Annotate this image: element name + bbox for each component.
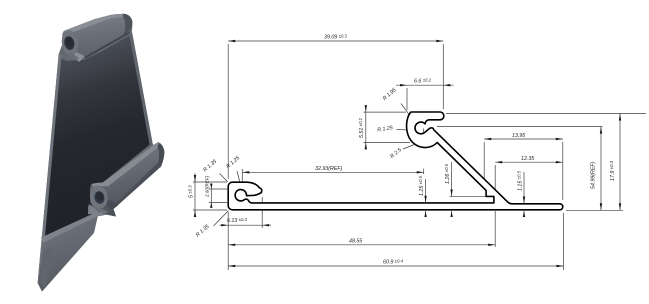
3D arm top-face highlight xyxy=(92,142,161,187)
ext line left hook bottom-left xyxy=(227,212,229,270)
3D bottom flange top band xyxy=(41,212,109,243)
arrowheads xyxy=(194,40,621,267)
3D arm curl tip xyxy=(97,208,108,214)
svg-text:1.15 ±0.5: 1.15 ±0.5 xyxy=(517,170,524,191)
svg-text:48.55: 48.55 xyxy=(349,239,362,245)
ext line slot level right long xyxy=(437,126,603,128)
dim line 6.13 xyxy=(220,224,272,226)
3D render: profile base silhouette xyxy=(38,14,165,292)
ext line bar right end upper xyxy=(562,142,564,200)
arrow 1.26 down xyxy=(450,189,452,196)
2D drawing xyxy=(193,41,646,270)
ext line hook bottom left xyxy=(364,141,411,143)
ext line left hook top xyxy=(193,181,227,183)
svg-text:60.9 ±0.4: 60.9 ±0.4 xyxy=(383,259,404,266)
ext line bar right end lower xyxy=(563,213,565,270)
svg-text:13.95: 13.95 xyxy=(512,133,525,139)
arrows 60.9 xyxy=(228,265,235,267)
ext line bar bottom right xyxy=(566,209,623,211)
dim texts xyxy=(188,34,617,266)
3D cap bottom edge shadow xyxy=(85,32,130,59)
dim line 2.60 xyxy=(210,184,212,208)
dim line 17.9 xyxy=(619,114,621,211)
arrows 12.35 xyxy=(495,161,502,163)
extrusion profile outline xyxy=(228,112,563,210)
dim line 5 xyxy=(194,173,196,215)
3D top cap top-face highlight xyxy=(64,14,125,35)
ext line 6.13 right xyxy=(261,197,263,228)
dim line 32.93 xyxy=(242,171,423,173)
ext line cap top right long xyxy=(446,113,646,115)
3D bottom arm bar xyxy=(90,142,164,217)
3D arm hook curl front face xyxy=(88,184,109,210)
dim line 5.51 xyxy=(365,107,367,148)
svg-text:R 1.25: R 1.25 xyxy=(377,125,393,133)
svg-text:32.93(REF): 32.93(REF) xyxy=(315,166,343,172)
ext line 48.55 right xyxy=(494,211,496,247)
arrows 6.6 outside xyxy=(400,84,407,86)
3D top cap curl tip xyxy=(68,53,80,61)
arrow 1.25 down xyxy=(424,196,426,203)
svg-text:R 1.95: R 1.95 xyxy=(382,87,398,102)
3D arm below-curl light gap xyxy=(88,204,100,214)
ext line 39.09 right cap right xyxy=(442,44,444,109)
ext line 32.93 right xyxy=(423,169,425,174)
svg-text:6.6 ±0.2: 6.6 ±0.2 xyxy=(414,78,432,85)
svg-text:39.09 ±0.3: 39.09 ±0.3 xyxy=(324,34,348,41)
3D arm mouth shadow xyxy=(106,200,118,211)
ext line 39.09 left / hook left xyxy=(227,44,229,179)
svg-text:5 ±0.3: 5 ±0.3 xyxy=(188,185,195,198)
svg-text:2.60(REF): 2.60(REF) xyxy=(205,175,210,198)
3D web left edge light strip xyxy=(38,54,62,285)
svg-text:R 1.25: R 1.25 xyxy=(225,155,241,170)
svg-text:17.9 ±0.3: 17.9 ±0.3 xyxy=(609,160,616,181)
3D cap mouth light gap xyxy=(72,52,85,62)
leader R1.35 upper-left xyxy=(220,174,228,182)
3D top cap bar xyxy=(62,14,132,59)
arrows 39.09 xyxy=(228,40,235,42)
arrows 48.55 xyxy=(228,244,235,246)
ext line 13.95 left xyxy=(483,142,485,187)
3D arm lower shade xyxy=(112,163,161,209)
3D arm end face xyxy=(158,143,165,167)
dim line 1.26 xyxy=(451,162,453,196)
cavity centerline tick top hook xyxy=(423,129,425,136)
3D top cap end face xyxy=(123,14,133,35)
dim line 1.25 xyxy=(425,179,427,203)
ext line left hook bottom xyxy=(193,209,227,211)
dim line 12.35 xyxy=(495,161,563,163)
ext line cap top left xyxy=(364,111,407,113)
leader R2.5 xyxy=(403,144,417,150)
leader R1.25 top xyxy=(397,129,415,132)
ext line ledge level xyxy=(450,196,487,198)
ext line 12.35 left xyxy=(494,165,496,202)
arrows 54.99 xyxy=(600,127,602,134)
arrows 2.60 outside xyxy=(210,184,212,190)
svg-text:6.13 ±0.3: 6.13 ±0.3 xyxy=(227,217,248,224)
3D top cap cavity hole xyxy=(63,35,76,51)
svg-text:R 1.35: R 1.35 xyxy=(202,159,218,174)
dim line 39.09 xyxy=(228,40,443,42)
ext line 6.6 left xyxy=(406,88,408,110)
svg-text:1.26 ±0.5: 1.26 ±0.5 xyxy=(444,163,451,184)
arrows 5 outside xyxy=(194,175,196,182)
dim line 6.6 xyxy=(396,84,454,86)
svg-text:5.51 ±0.2: 5.51 ±0.2 xyxy=(358,117,365,138)
dim line 60.9 xyxy=(228,265,563,267)
svg-text:1.25 ±0.5: 1.25 ±0.5 xyxy=(418,175,425,196)
dim line 54.99 xyxy=(600,127,602,211)
arrows 17.9 xyxy=(619,114,621,121)
arrows 13.95 xyxy=(484,138,491,140)
3D flange near cut shade xyxy=(40,247,54,288)
arrow 1.15 down xyxy=(523,197,525,204)
leader R1.95 xyxy=(401,104,409,115)
dim line 1.15 xyxy=(523,172,525,204)
arrows 32.93 xyxy=(242,171,249,173)
ext line 32.93 left xyxy=(241,169,243,186)
svg-text:R 2.5: R 2.5 xyxy=(389,147,403,160)
3D bottom flange front face xyxy=(38,216,98,291)
svg-text:R 1.35: R 1.35 xyxy=(195,224,211,239)
arrows 5.51 outside xyxy=(365,105,367,112)
svg-text:54.99(REF): 54.99(REF) xyxy=(591,161,597,189)
3D arm cavity hole xyxy=(93,190,106,205)
3D web right cut edge strip xyxy=(129,31,153,146)
leader R1.35 lower-left xyxy=(214,211,229,227)
3D top cap hook curl front face xyxy=(60,29,80,56)
arrows 6.13 outside xyxy=(221,224,228,226)
svg-text:12.35: 12.35 xyxy=(521,156,534,162)
dim line 13.95 xyxy=(484,138,563,140)
dim line 48.55 xyxy=(228,244,495,246)
3D web dark front panel xyxy=(44,36,150,240)
ext line left cavity bottom xyxy=(209,201,227,203)
ext line left cavity top xyxy=(209,188,227,190)
leader R1.25 left xyxy=(237,171,242,191)
